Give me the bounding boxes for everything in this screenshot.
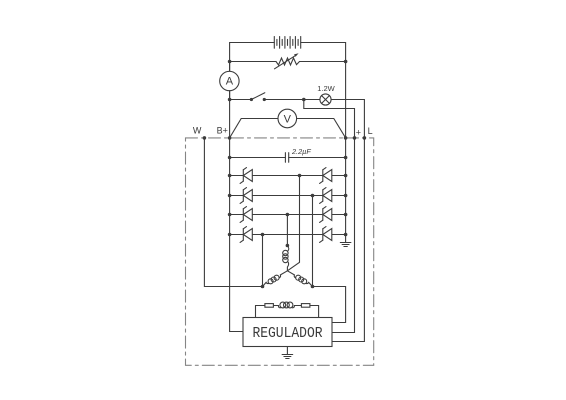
ammeter A (220, 71, 239, 90)
wire switch to lamp (264, 99, 320, 101)
wire tap row3 down (286, 215, 288, 246)
svg-text:+: + (356, 127, 361, 137)
node row2 tap (311, 194, 315, 198)
diode D6 (right row2) (320, 188, 332, 204)
node row3 tap (286, 213, 290, 217)
brush 1 (265, 304, 274, 308)
ground regulator (282, 347, 293, 359)
node rheostat right (344, 60, 348, 64)
diode D5 (right row1) (320, 168, 332, 184)
node row1 left bus (228, 174, 232, 178)
svg-text:L: L (368, 126, 373, 136)
lamp 1.2W (317, 84, 335, 105)
wire row4 tap to coil left end (262, 235, 264, 287)
svg-text:V: V (284, 114, 292, 126)
svg-text:REGULADOR: REGULADOR (252, 325, 323, 342)
svg-text:B+: B+ (217, 126, 228, 136)
diode D4 (left row4) (240, 227, 252, 243)
wire battery top right (301, 43, 346, 62)
node rheostat left (228, 60, 232, 64)
node row3 left bus (228, 213, 232, 217)
diode row 1 wire (230, 175, 346, 177)
node row1 right bus (344, 174, 348, 178)
wire tap row1 to star center (287, 176, 299, 271)
stator coil middle (283, 246, 289, 271)
diode D2 (left row2) (240, 188, 252, 204)
switch S1 (250, 93, 266, 101)
stator coil left (263, 271, 288, 287)
wire rheostat row left (230, 61, 276, 63)
wire coil to brush2 (296, 305, 301, 307)
stator coil right (287, 271, 312, 287)
diode row 3 wire (230, 214, 346, 216)
label REGULADOR (252, 325, 323, 342)
field winding wire left (256, 305, 265, 307)
brush 2 (301, 304, 310, 308)
wire right bus down to boundary (345, 62, 347, 139)
diode D8 (right row4) (320, 227, 332, 243)
node row3 right bus (344, 213, 348, 217)
rheostat R1 (275, 53, 300, 69)
wire junction to + terminal (304, 100, 355, 139)
diode D1 (left row1) (240, 168, 252, 184)
diode D3 (left row3) (240, 207, 252, 223)
wire + terminal down to regulator (332, 138, 355, 333)
alternator housing boundary (dash-dot) (186, 138, 374, 365)
node terminal B+ (228, 136, 232, 140)
wire L terminal down to regulator (332, 138, 364, 342)
wire ammeter top (229, 62, 231, 72)
wire brush1 to coil (273, 305, 278, 307)
node row2 left bus (228, 194, 232, 198)
node coil top (286, 244, 290, 248)
node terminal ground bus (344, 136, 348, 140)
wire tap row2 down (312, 196, 314, 287)
wire ground bus vertical (345, 138, 347, 243)
node row4 right bus (344, 233, 348, 237)
node stator left end (261, 285, 265, 289)
wire battery top left vertical (230, 43, 275, 139)
svg-text:2.2µF: 2.2µF (291, 147, 311, 156)
wire W terminal down to coil left end (204, 138, 262, 287)
node row4 left bus (228, 233, 232, 237)
battery B1 (274, 37, 300, 49)
wire rheostat row right (300, 61, 346, 63)
wire lamp to L terminal (331, 100, 364, 139)
node row2 right bus (344, 194, 348, 198)
field winding left lead (255, 306, 257, 318)
node stator right end (311, 285, 315, 289)
diode row 2 wire (230, 195, 346, 197)
node row4 tap (261, 233, 265, 237)
node switch left bus (228, 98, 232, 102)
node terminal W (203, 136, 207, 140)
diode D7 (right row3) (320, 207, 332, 223)
regulator box U1 (243, 318, 332, 347)
capacitor C1 2.2uF (228, 147, 348, 163)
field winding right lead (318, 306, 320, 318)
node lamp junction (302, 98, 306, 102)
ground rectifier (340, 243, 351, 247)
field winding wire right (310, 305, 319, 307)
node terminal + (353, 136, 357, 140)
wire switch left (230, 99, 252, 101)
svg-text:1.2W: 1.2W (317, 84, 335, 93)
wire coil right end to regulator (313, 287, 346, 323)
svg-text:A: A (226, 76, 234, 88)
svg-text:W: W (193, 126, 202, 136)
wire ammeter bottom (229, 91, 231, 100)
diode row 4 wire (230, 234, 346, 236)
rotor field coil (278, 302, 296, 308)
node terminal L (363, 136, 367, 140)
node row1 tap (298, 174, 302, 178)
wire B+ bus vertical (230, 138, 243, 332)
voltmeter V (230, 109, 346, 138)
